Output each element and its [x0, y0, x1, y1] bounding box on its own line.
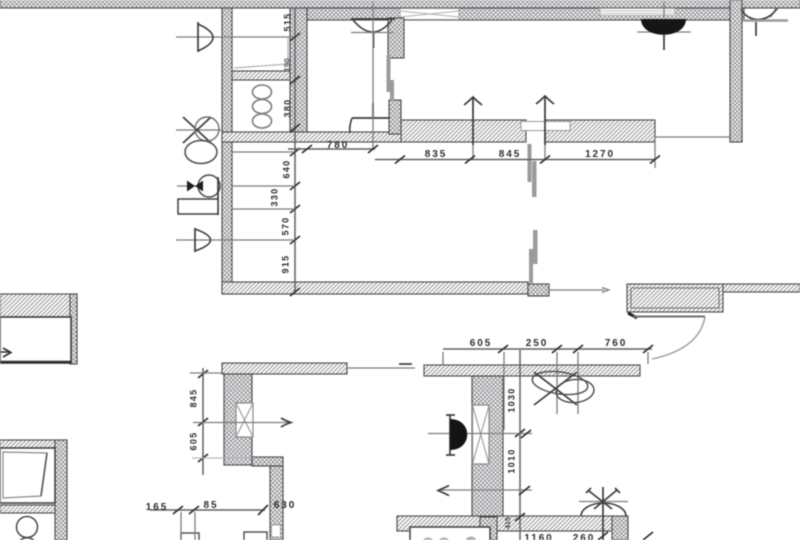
wall top band right section: [307, 8, 744, 20]
wall big vertical center: [472, 376, 503, 517]
black wall lamp on center wall: [428, 415, 532, 455]
wall L-corner piece: [252, 457, 283, 466]
wall middle-left block hatch top: [0, 294, 77, 317]
wall bottom horizontal: [397, 516, 612, 531]
wall bottom-left room top strip: [0, 440, 67, 448]
dimension chain middle (605 250 760): [443, 345, 653, 430]
extension line at x655: [654, 135, 656, 168]
wall lower-middle horizontal left part: [222, 363, 347, 374]
window box with X in left vertical wall: [236, 403, 253, 437]
window in top band right: [600, 9, 675, 16]
black basin top right room: [637, 2, 691, 50]
basin top middle: [351, 19, 395, 48]
wall middle horizontal band thick right: [545, 120, 655, 142]
svg-text:250: 250: [526, 338, 548, 349]
wall corner stub top (beside basin): [388, 18, 404, 58]
fan symbol below wall: [531, 368, 595, 405]
svg-text:845: 845: [499, 149, 521, 160]
basin outline far top right: [741, 8, 788, 36]
wall bottom of left stack: [222, 282, 528, 294]
wall vertical below lower-middle left: [224, 374, 252, 465]
svg-text:380: 380: [282, 99, 292, 118]
lamp fixture lower left wall: [176, 228, 232, 252]
svg-text:165: 165: [146, 502, 168, 513]
up arrow extension line A: [464, 97, 482, 160]
shaft box with X in center vertical wall: [473, 405, 490, 464]
counter box middle-left: [0, 317, 71, 363]
svg-text:1160: 1160: [524, 533, 553, 540]
valve fixture left wall: [177, 175, 220, 215]
door lamp symbol bottom right: [579, 487, 628, 540]
wall right vertical of small rooms stack: [290, 8, 307, 135]
lamp fixture top-left of wall: [176, 22, 294, 52]
svg-text:260: 260: [573, 533, 595, 540]
window in top band left: [400, 9, 459, 20]
right arrow through left wall: [193, 418, 291, 427]
svg-text:515: 515: [282, 13, 292, 32]
extension lines to left wall: [232, 152, 295, 240]
svg-text:780: 780: [327, 140, 349, 151]
wall top strip full width: [0, 0, 800, 8]
small box fixture bottom center 2: [244, 532, 267, 540]
wall center column continuation to bottom: [480, 517, 497, 540]
shower tray lines room2: [234, 38, 288, 68]
vertical dimension chain center (1030 1010): [515, 350, 525, 540]
bathtub bottom-left: [0, 448, 55, 503]
svg-text:605: 605: [188, 432, 198, 451]
wall thick block top right: [627, 284, 723, 312]
rectangle fixture left wall: [178, 199, 218, 214]
arrow inside middle-left box: [1, 348, 11, 357]
bottom ticks: [598, 532, 653, 540]
svg-text:85: 85: [204, 500, 219, 511]
wall edge line across opening (lower-middle): [347, 367, 415, 369]
horizontal dimension chain under middle band: [288, 145, 660, 164]
wall left vertical of small rooms stack: [222, 8, 232, 294]
svg-text:570: 570: [280, 217, 290, 236]
left arrow center: [438, 486, 532, 496]
sink circles bottom-left: [17, 517, 38, 540]
wall middle horizontal band thin left part: [222, 132, 402, 142]
bottom dimension chain (165 85 630): [150, 505, 268, 540]
burner dots bottom: [423, 537, 476, 540]
room interior below bottom wall: [410, 527, 490, 540]
wall edge line across opening right of door block: [549, 289, 604, 291]
svg-text:835: 835: [425, 149, 447, 160]
svg-text:845: 845: [188, 389, 198, 408]
door leaf top room: [350, 103, 390, 133]
wall right vertical top: [730, 0, 742, 142]
svg-text:1270: 1270: [585, 149, 615, 160]
sliding door bars upper: [387, 55, 395, 101]
door block in bottom-left-stack wall: [528, 284, 549, 296]
wall middle horizontal band thick left: [401, 120, 526, 142]
sliding door bars middle: [528, 144, 538, 283]
up arrow extension line B: [536, 96, 554, 160]
svg-text:605: 605: [470, 338, 492, 349]
svg-text:760: 760: [605, 338, 627, 349]
svg-text:640: 640: [281, 160, 291, 179]
wall divider between room1 and room2: [232, 71, 290, 80]
svg-text:415: 415: [505, 517, 512, 529]
wall bottom-left room right column: [55, 440, 67, 540]
svg-text:915: 915: [280, 255, 290, 274]
svg-text:330: 330: [269, 188, 279, 207]
wall bottom-left room lower strip: [0, 505, 55, 513]
window in middle band: [521, 122, 570, 131]
wall edge line across door opening in middle band: [655, 136, 730, 138]
door of top-right block: [628, 313, 705, 359]
vertical dimension chain left stack: [290, 8, 300, 296]
wall stub above middle band at door: [389, 100, 401, 134]
door block at bottom wall right end: [612, 516, 628, 540]
fan star fixture left wall: [176, 117, 221, 164]
wall vertical going to bottom edge left-middle: [270, 466, 283, 540]
wall thin strip right of block: [723, 284, 800, 292]
small box fixture bottom center 1: [181, 533, 199, 540]
svg-text:190: 190: [283, 58, 292, 72]
svg-text:1010: 1010: [506, 448, 516, 473]
svg-text:1030: 1030: [506, 387, 516, 412]
extension line at x373: [372, 2, 374, 150]
wall middle-left block hatch right column: [70, 294, 77, 364]
wall lower-middle horizontal right part: [424, 365, 640, 376]
vertical dimension chain far left (845 605): [190, 368, 252, 475]
svg-text:630: 630: [274, 500, 296, 511]
radiator circles in room3: [253, 85, 272, 128]
wall stub right of middle band door opening: [730, 134, 742, 142]
